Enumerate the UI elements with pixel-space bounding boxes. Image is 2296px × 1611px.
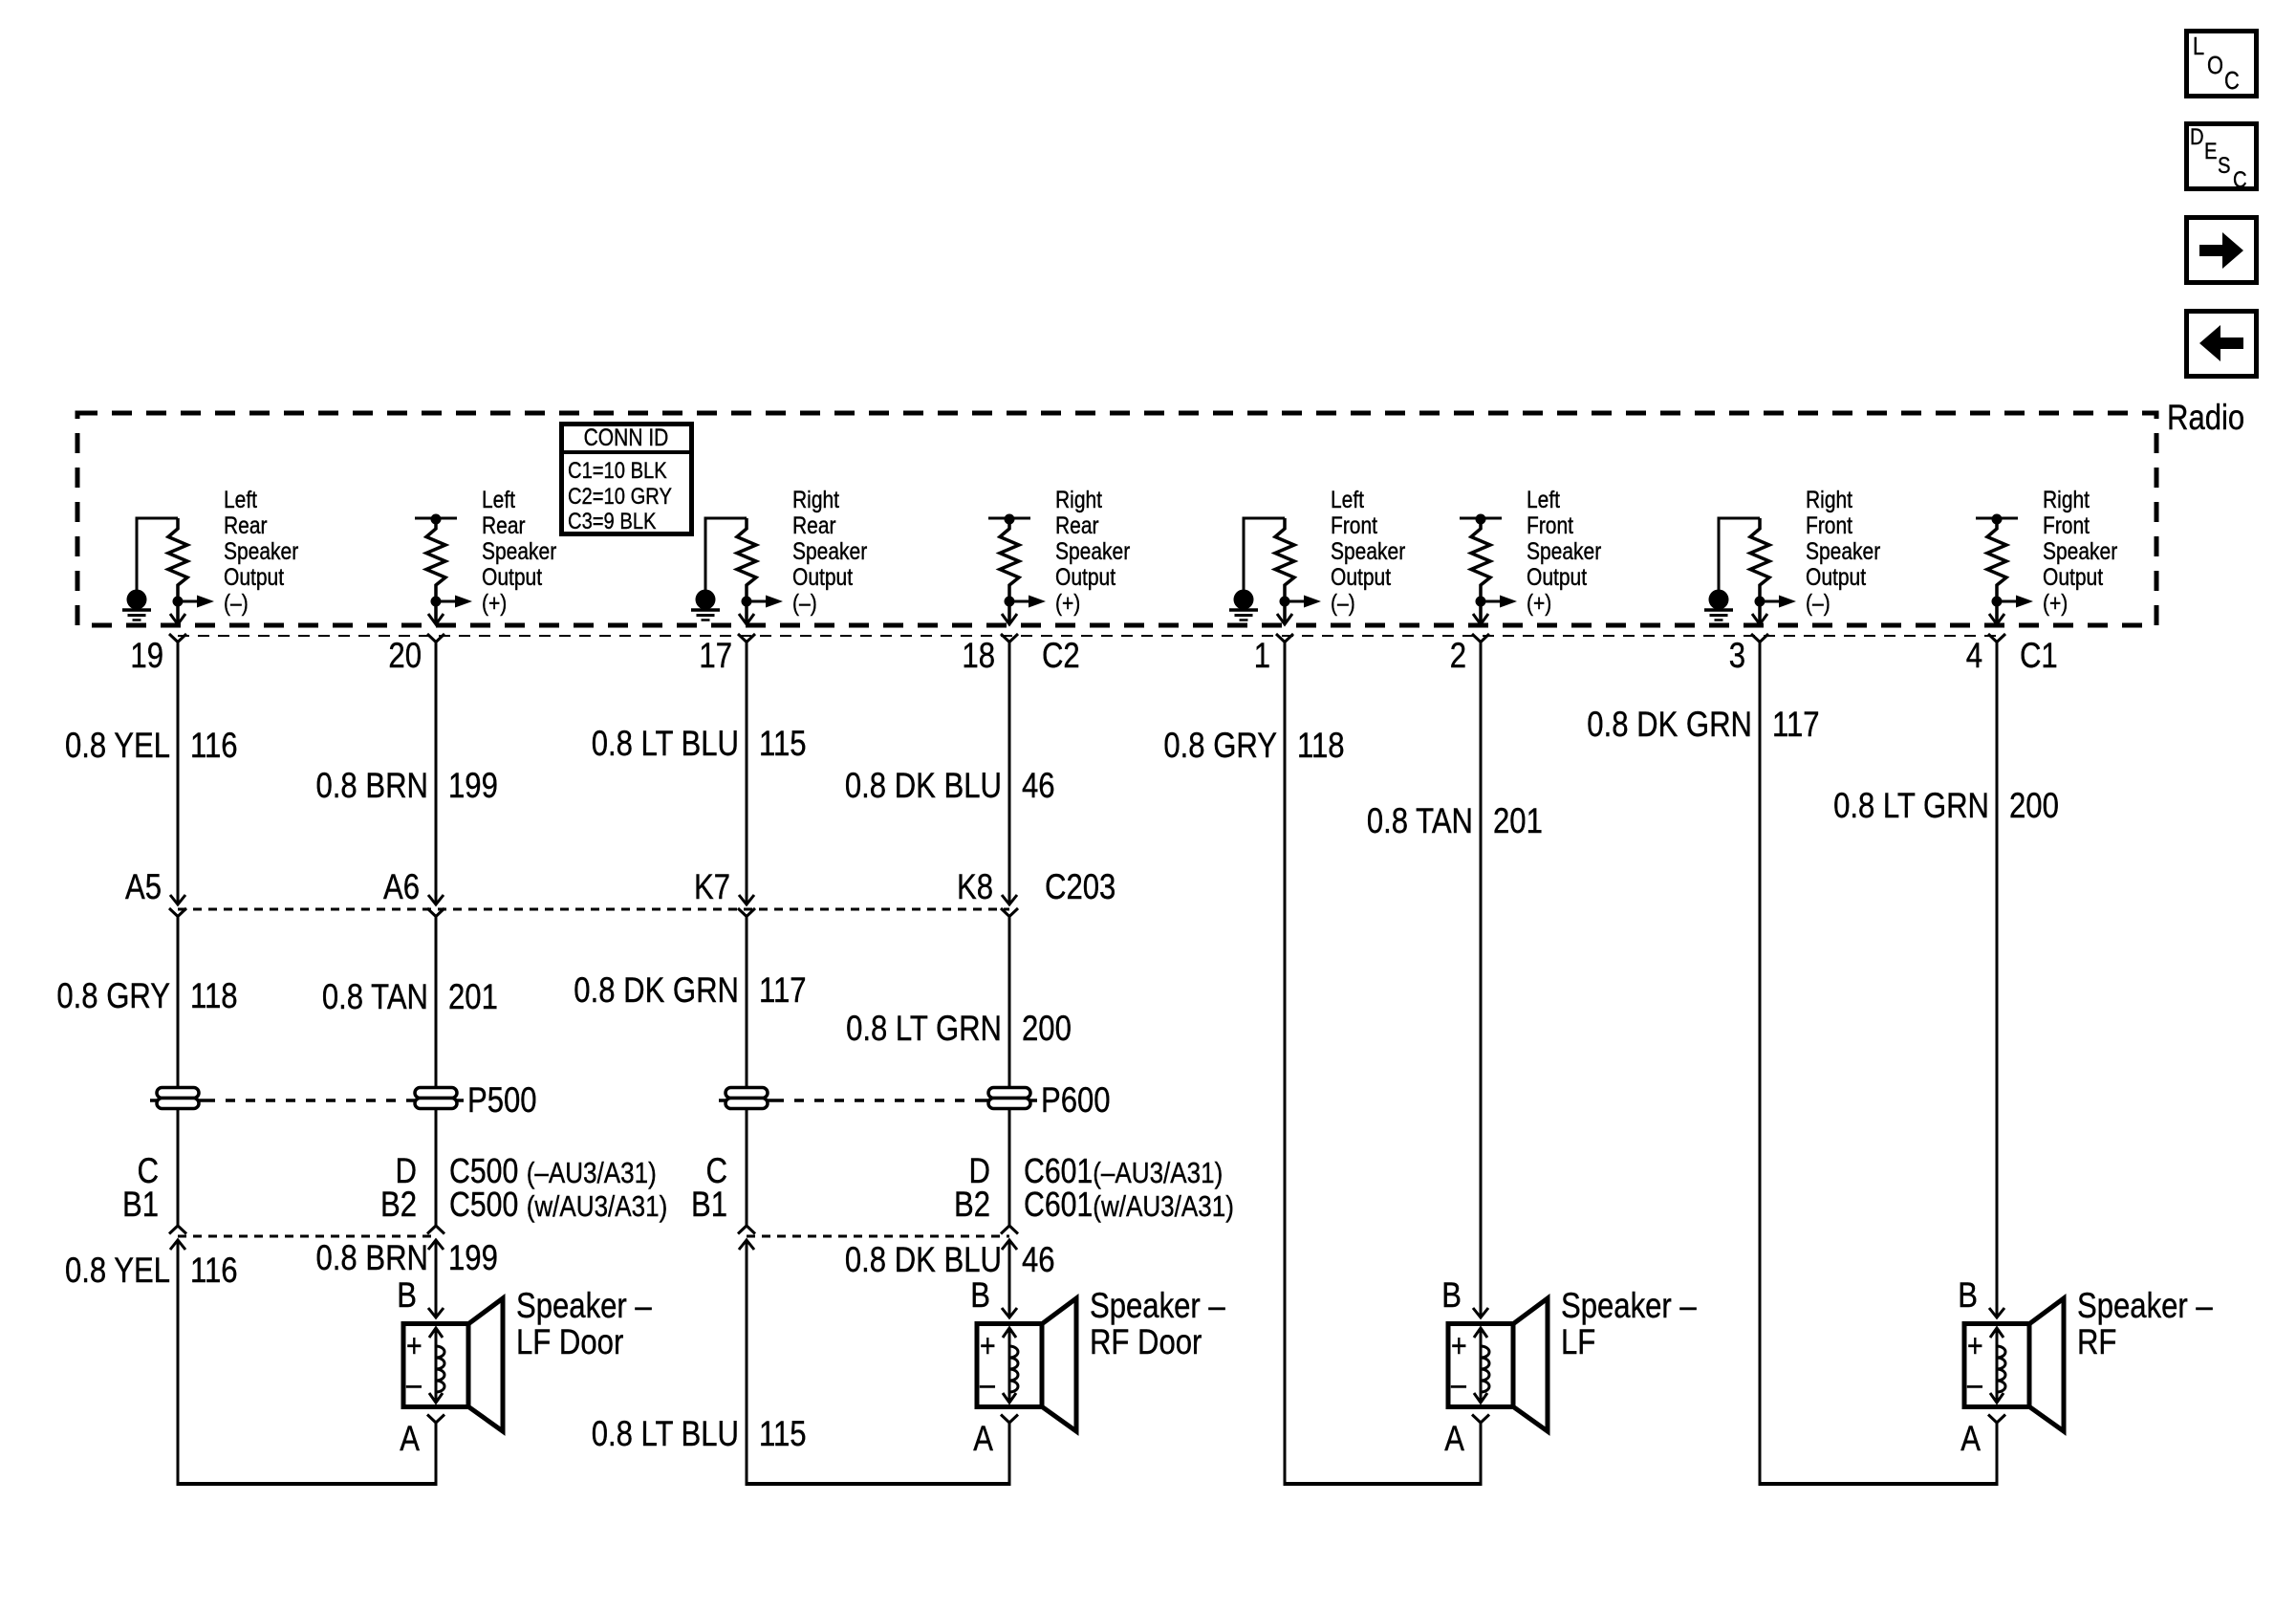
svg-text:Left: Left	[1527, 487, 1560, 513]
svg-text:Speaker: Speaker	[1331, 538, 1405, 565]
svg-text:C2=10 GRY: C2=10 GRY	[568, 484, 672, 510]
svg-text:0.8 LT GRN: 0.8 LT GRN	[1833, 786, 1989, 825]
svg-text:0.8 GRY: 0.8 GRY	[1163, 726, 1277, 765]
svg-text:K7: K7	[694, 867, 730, 906]
svg-text:200: 200	[1022, 1009, 1072, 1048]
svg-text:Left: Left	[1331, 487, 1364, 513]
svg-text:0.8 DK BLU: 0.8 DK BLU	[845, 1240, 1002, 1279]
svg-text:C1=10 BLK: C1=10 BLK	[568, 458, 667, 484]
svg-text:Speaker: Speaker	[1055, 538, 1130, 565]
svg-text:(+): (+)	[2043, 590, 2068, 617]
svg-text:46: 46	[1022, 766, 1055, 805]
svg-text:201: 201	[448, 977, 498, 1016]
svg-text:Output: Output	[792, 564, 853, 591]
svg-text:B1: B1	[691, 1185, 727, 1224]
svg-text:Radio: Radio	[2167, 398, 2244, 437]
svg-text:201: 201	[1493, 801, 1543, 840]
svg-text:RF: RF	[2077, 1322, 2116, 1361]
svg-text:E: E	[2204, 139, 2218, 164]
svg-text:0.8 BRN: 0.8 BRN	[316, 766, 429, 805]
svg-text:(–): (–)	[224, 590, 249, 617]
svg-text:2: 2	[1450, 636, 1466, 675]
svg-text:3: 3	[1729, 636, 1745, 675]
svg-text:RF Door: RF Door	[1090, 1322, 1202, 1361]
svg-text:B1: B1	[122, 1185, 159, 1224]
svg-text:Left: Left	[482, 487, 515, 513]
svg-text:Speaker: Speaker	[1527, 538, 1601, 565]
svg-text:–: –	[980, 1366, 995, 1403]
svg-text:B: B	[1441, 1275, 1462, 1315]
svg-text:(–): (–)	[1331, 590, 1355, 617]
svg-text:0.8 YEL: 0.8 YEL	[65, 726, 170, 765]
svg-text:4: 4	[1966, 636, 1982, 675]
svg-text:Right: Right	[2043, 487, 2090, 513]
svg-text:Speaker –: Speaker –	[1090, 1286, 1225, 1325]
svg-text:LF: LF	[1561, 1322, 1595, 1361]
svg-text:B: B	[397, 1275, 417, 1315]
svg-text:A5: A5	[125, 867, 162, 906]
svg-text:Left: Left	[224, 487, 257, 513]
svg-text:A: A	[1444, 1419, 1464, 1458]
svg-text:18: 18	[962, 636, 995, 675]
svg-text:Speaker: Speaker	[224, 538, 298, 565]
svg-text:Speaker: Speaker	[2043, 538, 2117, 565]
svg-text:D: D	[2190, 124, 2204, 150]
svg-text:199: 199	[448, 766, 498, 805]
svg-text:Right: Right	[1055, 487, 1102, 513]
svg-text:CONN ID: CONN ID	[584, 425, 669, 451]
svg-text:117: 117	[1772, 705, 1820, 744]
svg-text:Rear: Rear	[1055, 512, 1099, 539]
svg-text:Output: Output	[1331, 564, 1391, 591]
svg-text:0.8 DK BLU: 0.8 DK BLU	[845, 766, 1002, 805]
svg-text:C: C	[2224, 66, 2240, 95]
svg-text:115: 115	[759, 1414, 807, 1453]
svg-text:B2: B2	[954, 1185, 990, 1224]
svg-text:117: 117	[759, 970, 807, 1010]
svg-text:C203: C203	[1045, 867, 1116, 906]
svg-text:(+): (+)	[1055, 590, 1080, 617]
svg-text:B: B	[1958, 1275, 1978, 1315]
svg-text:17: 17	[699, 636, 732, 675]
svg-text:Front: Front	[2043, 512, 2090, 539]
svg-text:115: 115	[759, 724, 807, 763]
svg-text:L: L	[2193, 32, 2204, 60]
svg-text:+: +	[1451, 1328, 1467, 1364]
svg-text:(–): (–)	[1806, 590, 1830, 617]
svg-text:Output: Output	[1527, 564, 1587, 591]
svg-text:Speaker: Speaker	[792, 538, 867, 565]
svg-text:P600: P600	[1041, 1080, 1111, 1120]
svg-text:A6: A6	[383, 867, 420, 906]
svg-text:Output: Output	[1806, 564, 1866, 591]
svg-text:116: 116	[190, 1251, 238, 1290]
svg-text:+: +	[980, 1328, 996, 1364]
svg-text:200: 200	[2009, 786, 2059, 825]
svg-text:0.8 LT BLU: 0.8 LT BLU	[592, 1414, 739, 1453]
svg-text:0.8 DK GRN: 0.8 DK GRN	[1587, 705, 1752, 744]
svg-text:19: 19	[130, 636, 163, 675]
svg-text:46: 46	[1022, 1240, 1055, 1279]
svg-text:20: 20	[388, 636, 422, 675]
svg-text:118: 118	[1297, 726, 1345, 765]
svg-text:A: A	[400, 1419, 420, 1458]
svg-text:(+): (+)	[482, 590, 507, 617]
svg-text:Front: Front	[1527, 512, 1573, 539]
svg-text:B2: B2	[380, 1185, 417, 1224]
svg-text:Rear: Rear	[792, 512, 836, 539]
svg-text:C500 (w/AU3/A31): C500 (w/AU3/A31)	[449, 1185, 667, 1224]
svg-text:Output: Output	[2043, 564, 2103, 591]
svg-text:Rear: Rear	[482, 512, 526, 539]
svg-text:199: 199	[448, 1238, 498, 1277]
svg-text:118: 118	[190, 976, 238, 1015]
svg-text:A: A	[973, 1419, 993, 1458]
svg-text:(–): (–)	[792, 590, 817, 617]
svg-text:0.8 LT BLU: 0.8 LT BLU	[592, 724, 739, 763]
svg-text:116: 116	[190, 726, 238, 765]
svg-text:S: S	[2218, 153, 2231, 179]
svg-text:O: O	[2207, 51, 2223, 79]
svg-text:Output: Output	[482, 564, 542, 591]
svg-text:–: –	[1451, 1366, 1466, 1403]
svg-text:–: –	[406, 1366, 422, 1403]
svg-text:0.8 TAN: 0.8 TAN	[1367, 801, 1473, 840]
svg-text:+: +	[1967, 1328, 1983, 1364]
svg-text:A: A	[1960, 1419, 1981, 1458]
svg-text:C601(w/AU3/A31): C601(w/AU3/A31)	[1024, 1185, 1234, 1224]
svg-text:1: 1	[1254, 636, 1270, 675]
svg-text:Output: Output	[224, 564, 284, 591]
svg-text:K8: K8	[957, 867, 993, 906]
svg-text:Right: Right	[792, 487, 839, 513]
svg-text:0.8 YEL: 0.8 YEL	[65, 1251, 170, 1290]
svg-text:+: +	[406, 1328, 422, 1364]
svg-text:Front: Front	[1331, 512, 1377, 539]
svg-text:Speaker –: Speaker –	[516, 1286, 652, 1325]
svg-text:Speaker: Speaker	[1806, 538, 1880, 565]
svg-text:Speaker –: Speaker –	[1561, 1286, 1697, 1325]
svg-text:Rear: Rear	[224, 512, 268, 539]
svg-text:C3=9 BLK: C3=9 BLK	[568, 509, 657, 534]
svg-text:0.8 LT GRN: 0.8 LT GRN	[846, 1009, 1002, 1048]
svg-text:Right: Right	[1806, 487, 1852, 513]
svg-text:Speaker: Speaker	[482, 538, 556, 565]
svg-text:0.8 DK GRN: 0.8 DK GRN	[574, 970, 739, 1010]
svg-text:C2: C2	[1042, 636, 1080, 675]
svg-text:C1: C1	[2020, 636, 2058, 675]
svg-text:B: B	[970, 1275, 990, 1315]
svg-text:Speaker –: Speaker –	[2077, 1286, 2213, 1325]
svg-text:Output: Output	[1055, 564, 1116, 591]
svg-text:(+): (+)	[1527, 590, 1551, 617]
svg-text:–: –	[1967, 1366, 1982, 1403]
svg-text:LF Door: LF Door	[516, 1322, 623, 1361]
svg-text:0.8 TAN: 0.8 TAN	[322, 977, 428, 1016]
svg-text:Front: Front	[1806, 512, 1852, 539]
svg-text:P500: P500	[467, 1080, 537, 1120]
svg-text:0.8 BRN: 0.8 BRN	[316, 1238, 429, 1277]
svg-text:C: C	[2233, 167, 2247, 193]
svg-text:0.8 GRY: 0.8 GRY	[56, 976, 170, 1015]
